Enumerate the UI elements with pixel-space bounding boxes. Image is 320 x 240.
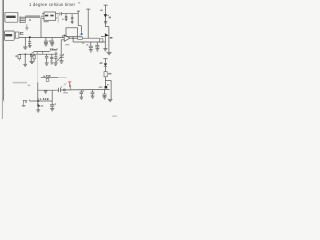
- label Q3: [41, 105, 43, 106]
- block box A2 (left lower): [4, 31, 19, 40]
- svg-text:a 4V5: a 4V5: [43, 74, 51, 78]
- power rail V2 (T-top): [86, 9, 90, 38]
- capacitor C2 to ground: [65, 14, 68, 19]
- emitter wire Q2: [104, 37, 106, 49]
- pencil arrow near T: [64, 83, 67, 86]
- ground G20: [91, 96, 95, 98]
- ground G6: [28, 45, 32, 47]
- connector J1 (4-pin, right of box A1): [20, 16, 25, 23]
- ground G18: [50, 109, 54, 111]
- ground G3: [71, 22, 74, 24]
- main lower wire (line A): [38, 89, 59, 91]
- capacitor bars on rail V3: [104, 21, 107, 23]
- transistor Q2 arrow: [105, 33, 109, 36]
- series capacitor C15 on line A: [59, 88, 61, 93]
- pin stubs U1 right: [56, 14, 59, 18]
- capacitor C16 (x52.2, polarized): [50, 90, 54, 108]
- pin stub U1 down: [57, 15, 59, 23]
- capacitor C10 (x56 between nets): [55, 52, 57, 53]
- jog wire to Q2 collector rail: [105, 26, 109, 28]
- ground G9: [59, 61, 63, 63]
- op-amp U3 triangle: [64, 35, 70, 42]
- inverting input wire with C7 variable: [57, 40, 65, 62]
- capacitor C18 (x92.5): [91, 90, 95, 96]
- power rail V4 lower right (T-top): [103, 59, 107, 64]
- wire J2 down: [24, 38, 26, 47]
- label right of R3: [82, 43, 84, 44]
- resistor R3 (box): [78, 37, 83, 39]
- tiny mark above title end: [78, 2, 80, 3]
- faint pencil mark: [28, 85, 31, 87]
- label mid cluster: [50, 60, 52, 62]
- ground G22: [108, 99, 113, 101]
- ground G7: [44, 44, 48, 46]
- label C5: [49, 40, 51, 41]
- label above R3: [79, 36, 82, 37]
- ground G10: [89, 50, 93, 52]
- stub at left end: [29, 100, 31, 101]
- capacitor C5 to ground (x45.9): [44, 38, 48, 44]
- base wire Q2: [101, 36, 105, 38]
- wire U2 left: [63, 36, 67, 38]
- capacitor C12 (x46.6): [45, 54, 48, 63]
- label Q2: [110, 37, 113, 39]
- svg-text:630mV: 630mV: [50, 47, 58, 51]
- switch S1 (bottom left bracket): [22, 100, 28, 106]
- ground (near connector J2): [25, 24, 28, 30]
- ground G21: [103, 97, 107, 99]
- label under op-amp: [65, 44, 69, 45]
- ground G4: [107, 52, 112, 54]
- feedback box U2: [66, 28, 78, 37]
- transistor Q3: [38, 103, 41, 109]
- wire down x111: [110, 80, 112, 99]
- ground G11: [95, 49, 99, 51]
- ground G19: [80, 97, 84, 99]
- link wires between nets: [37, 51, 42, 82]
- ground G16 (hanging at x46.6): [44, 90, 48, 93]
- page number bottom right: [112, 116, 117, 117]
- label right of D1: [109, 17, 111, 19]
- label left of D2: [100, 62, 103, 64]
- border frame left: [2, 0, 4, 119]
- label under U1: [43, 21, 48, 22]
- wire top line: [61, 13, 78, 15]
- wire U2 bottom to output: [72, 37, 74, 42]
- ground G17: [36, 110, 40, 112]
- capacitor C8 to ground (x90.8): [89, 42, 93, 50]
- junction dots on bus: [25, 54, 27, 56]
- label under cable: [29, 19, 31, 21]
- power rail V3 top right (T-top): [104, 5, 108, 27]
- diode D2: [104, 63, 107, 71]
- block box A1 (left top): [5, 12, 18, 22]
- capacitor C9 to ground (x97.3): [95, 42, 99, 49]
- IC U1: [44, 12, 56, 20]
- ground G12: [23, 64, 27, 66]
- capacitor C11 (x30.6): [30, 54, 33, 61]
- wire net C: [41, 77, 58, 79]
- capacitor C1 (series, right of U1): [60, 12, 62, 15]
- resistor R6 (box on rail): [104, 72, 107, 87]
- resistor R2 (base, box): [100, 39, 103, 42]
- wire down x25.2: [24, 54, 26, 64]
- ground G14: [45, 63, 49, 65]
- diode D1 (on rail V3): [104, 14, 109, 17]
- label under node: [63, 92, 68, 93]
- label R4: [15, 55, 17, 57]
- capacitor C20 polarized dark: [105, 86, 108, 89]
- junction node B: [38, 100, 40, 102]
- plus label C20: [107, 84, 108, 85]
- resistor R4 (box, hanging x19.3): [18, 54, 21, 61]
- label C17: [82, 90, 84, 91]
- capacitor C6 to ground (x52.1): [50, 38, 54, 44]
- label C8: [87, 44, 89, 45]
- output wire cont.: [82, 37, 99, 39]
- capacitor C13 (x51.8 short): [50, 54, 53, 62]
- red tick near C15: [60, 86, 62, 88]
- wire from cable junction down to input line: [40, 17, 42, 38]
- red marker T: [68, 82, 71, 87]
- wire net 630mV: [34, 50, 50, 52]
- input wire from box A2: [19, 37, 64, 39]
- wire net B: [29, 100, 52, 102]
- wire stub above line A: [70, 85, 72, 90]
- label near line A right: [99, 87, 103, 88]
- wire cable to IC: [25, 16, 40, 17]
- ground G2: [65, 19, 68, 21]
- output wire y38.2: [70, 37, 78, 39]
- ground G15: [54, 63, 58, 65]
- wire line A left elbow down: [37, 82, 39, 103]
- capacitor C19 (x104.5): [103, 89, 107, 96]
- junction node: [29, 36, 31, 38]
- node circle on line A: [63, 89, 65, 91]
- collector rail Q2: [108, 27, 110, 53]
- capacitor C3 to ground: [71, 14, 74, 22]
- faint pencil text left: [13, 82, 28, 84]
- ground G13: [29, 61, 34, 63]
- label left of D1: [100, 10, 103, 11]
- label above bus left: [32, 52, 34, 53]
- pin stubs U1 left: [41, 14, 44, 19]
- capacitor C17 (x81.3): [80, 90, 84, 97]
- ground G15b: [50, 62, 53, 64]
- label C2: [62, 19, 64, 20]
- svg-text:≈1.5dB: ≈1.5dB: [38, 97, 49, 101]
- label R6: [108, 73, 111, 75]
- blue label net: [81, 33, 83, 35]
- ground G8: [50, 44, 54, 46]
- ground G1: [23, 47, 27, 49]
- wire down to lower output line: [73, 41, 105, 43]
- branch wire right: [105, 79, 111, 81]
- connector J2 (2-pin, right of box A2): [20, 32, 23, 35]
- power rail V1 (T-top): [77, 11, 82, 33]
- bus wire mid: [20, 53, 58, 55]
- resistor R5 (box x33): [33, 54, 35, 61]
- ground G5: [103, 49, 107, 51]
- svg-text:1 degree celsius timer: 1 degree celsius timer: [29, 2, 76, 7]
- capacitor C14 (x55.9): [54, 54, 57, 63]
- trimmer box on net C: [46, 78, 49, 81]
- plus label C16: [55, 103, 56, 104]
- node U2 out: [72, 38, 73, 39]
- capacitor C4 to ground (x29.6): [28, 38, 31, 45]
